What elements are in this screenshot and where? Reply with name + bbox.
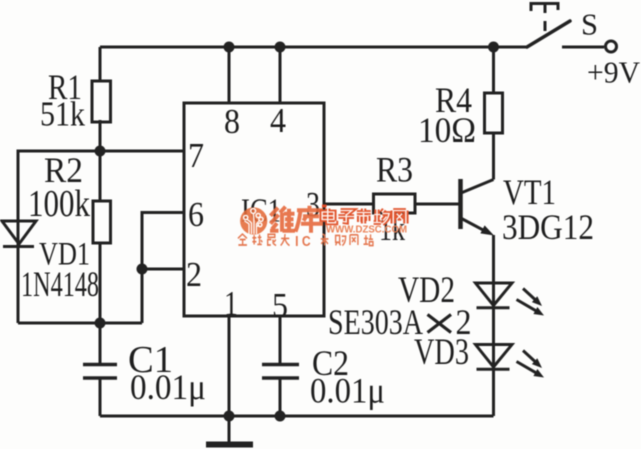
wire pin 8 [228,47,231,103]
wire collector to R4 [492,133,495,180]
svg-text:1N4148: 1N4148 [21,264,99,304]
resistor R2 [93,201,111,243]
ground [206,442,253,448]
wire pin 5 to C2 [279,316,282,364]
wire emitter down through VD2 and VD3 to bottom rail [492,235,495,416]
wire bottom rail [100,415,494,418]
wire pins 6 and 2 tie [142,213,184,324]
svg-text:I C: I C [295,233,311,249]
wire pin 4 [279,47,282,103]
node H junction top rail R4/switch [488,42,499,53]
svg-text:51k: 51k [40,95,85,134]
svg-text:1: 1 [224,284,238,323]
wire pin 7 [100,150,184,153]
LED VD2 light arrow 1 [523,289,535,300]
IC IC1 box [184,103,324,316]
LED VD3 light arrow 1 [523,351,535,362]
wire VD1 bottom lead [17,221,20,323]
svg-text:WWW.DZSC.COM: WWW.DZSC.COM [326,224,407,235]
wire R1 bottom lead to node A [99,120,102,151]
svg-text:2: 2 [186,255,202,294]
svg-text:10Ω: 10Ω [418,110,476,150]
svg-text:SE303A: SE303A [328,302,423,342]
wire R1 top lead [99,47,102,82]
resistor R3 [374,194,416,213]
svg-text:S: S [581,7,598,42]
LED VD3 [476,345,513,370]
svg-text:100k: 100k [28,183,90,225]
svg-text:VD3: VD3 [414,332,469,373]
watermark char cai [321,234,329,246]
wire bottom-left branch [18,322,142,325]
watermark char dian [322,209,335,223]
wire left branch top [18,151,100,221]
watermark char da [281,234,290,246]
watermark char ku [296,206,324,233]
wire top rail from R1 to switch [100,46,528,49]
capacitor C1 [83,365,117,379]
svg-text:+9V: +9V [587,55,641,90]
svg-text:VT1: VT1 [503,172,556,212]
svg-text:6: 6 [188,195,204,234]
node D junction top rail pin8 [224,42,235,53]
node F junction pin1/ground [224,411,235,422]
diode VD1 [2,221,36,247]
svg-text:8: 8 [224,102,240,141]
watermark char qiu [252,235,262,245]
node C junction pin6/pin2 [137,264,148,275]
LED VD3 light arrow 2 [517,362,537,373]
watermark char wang2 [350,235,358,245]
wire C1 bottom lead [99,378,102,416]
watermark char wang [393,211,406,224]
capacitor C2 [262,365,299,379]
node A junction R1/R2/pin7/left branch [95,146,106,157]
node E junction top rail pin4 [275,42,286,53]
transistor VT1 emitter [462,219,484,230]
wire pin 1 to ground rail [228,316,231,416]
node G junction C2/bottom rail [275,411,286,422]
switch S contact circle [606,41,617,52]
LED VD2 [476,283,513,308]
switch S lever [527,21,570,47]
svg-text:0.01μ: 0.01μ [130,367,206,407]
watermark char shi [357,209,371,224]
wire R4 top lead [492,47,495,93]
watermark char wei [270,207,295,232]
svg-text:0.01μ: 0.01μ [310,371,385,411]
svg-text:7: 7 [188,136,204,175]
watermark char zui [267,234,276,245]
watermark logo circle [240,207,267,234]
watermark char gou [336,235,346,245]
wire R2 body column [99,151,102,201]
svg-text:4: 4 [270,101,286,140]
transistor VT1 emitter arrowhead [480,225,494,235]
resistor R4 [485,93,503,133]
watermark char chang [374,210,389,224]
wire C2 bottom lead [279,378,282,416]
transistor VT1 base bar [458,179,463,229]
switch S push button cap [531,2,558,31]
wire ground stem [228,416,231,442]
watermark char quan [238,234,247,245]
wire pin 3 to R3 [324,203,374,206]
svg-text:R3: R3 [376,150,413,190]
watermark char zi [338,211,354,223]
svg-text:5: 5 [272,286,288,325]
node B junction R2/C1/VD1/pins 6-2 [95,318,106,329]
svg-text:3DG12: 3DG12 [502,207,594,247]
switch S right contact wire [562,46,604,49]
transistor VT1 collector [461,180,494,194]
wire R3 to base [415,203,460,206]
watermark char zhan [364,234,373,245]
LED VD2 light arrow 2 [517,300,537,311]
watermark TM mark [322,205,327,208]
resistor R1 [92,81,111,122]
wire R2 bottom lead to C1 [99,243,102,364]
